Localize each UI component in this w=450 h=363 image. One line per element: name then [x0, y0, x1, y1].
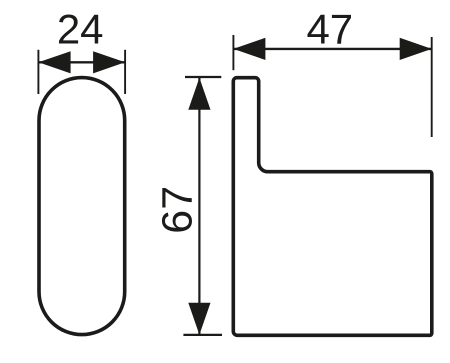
- svg-text:67: 67: [153, 186, 201, 234]
- dimension 47 extension line right: [431, 37, 433, 137]
- dimension 47 arrowhead left: [233, 38, 265, 60]
- dimension 67 dimension line: [198, 78, 200, 335]
- dimension 24 extension line left: [37, 50, 39, 94]
- dimension 47 arrowhead right: [400, 38, 432, 60]
- dimension 47 extension line left: [232, 35, 234, 70]
- dimension 67 extension line top: [185, 76, 221, 78]
- svg-text:47: 47: [306, 5, 353, 52]
- front view capsule outline: [39, 78, 125, 335]
- dimension 67 arrowhead bottom: [188, 303, 210, 335]
- dimension 67 arrowhead top: [188, 78, 210, 110]
- dimension 24 extension line right: [124, 50, 126, 94]
- dimension 47 dimension line: [233, 48, 431, 50]
- side view hook outline: [233, 78, 431, 336]
- dimension 24 arrowhead left: [38, 51, 70, 73]
- dimension 24 dimension line: [38, 61, 125, 63]
- svg-text:24: 24: [57, 5, 104, 52]
- dimension 24 arrowhead right: [93, 51, 125, 73]
- dimension 67 extension line bottom: [183, 334, 222, 336]
